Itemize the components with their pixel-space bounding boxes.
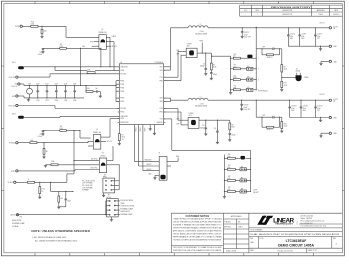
terminal VOUT2: [319, 94, 338, 103]
svg-text:R6: R6: [232, 124, 234, 126]
svg-text:DUAL 3A MONOLITHIC SYNCHRONOUS: DUAL 3A MONOLITHIC SYNCHRONOUS STEP-DOWN…: [250, 233, 340, 236]
resistor R2 453k: [87, 69, 95, 73]
svg-text:COUT3: COUT3: [244, 32, 249, 34]
wire PGND stubs: [134, 125, 154, 133]
ground: [149, 129, 152, 131]
svg-text:VOUT1: VOUT1: [319, 23, 324, 25]
svg-text:SW2: SW2: [160, 101, 163, 103]
resistor R3 4.7M: [60, 44, 67, 49]
transistor Q1 TMB2A: [98, 29, 106, 49]
jumper JP2 FREQ: [103, 164, 119, 193]
wire: [281, 72, 283, 81]
wire VOUT1 bus: [208, 27, 329, 29]
svg-text:CIN6: CIN6: [73, 100, 76, 102]
svg-text:RUN1: RUN1: [200, 41, 204, 43]
capacitor COUT9 0.1uF: [240, 100, 250, 111]
wire: [41, 26, 43, 29]
svg-text:REV: REV: [256, 10, 259, 12]
svg-text:BURST MODE: BURST MODE: [12, 220, 21, 222]
wire TRACK/SS1: [24, 66, 120, 68]
svg-text:47uF: 47uF: [301, 36, 304, 38]
svg-text:VOUT2: VOUT2: [319, 94, 324, 96]
svg-text:SHEET 1 OF 1: SHEET 1 OF 1: [308, 250, 317, 252]
wire: [107, 146, 113, 161]
svg-text:40.2k 1%: 40.2k 1%: [267, 57, 274, 59]
svg-text:22uF: 22uF: [45, 83, 48, 85]
svg-text:ITH1: ITH1: [160, 77, 163, 79]
svg-text:HYS: HYS: [90, 41, 93, 43]
transistor Q2 TMB2A-160: [93, 129, 101, 149]
resistor R24 40.2k: [281, 122, 288, 129]
ground: [280, 90, 283, 92]
svg-text:TRK/SS2: TRK/SS2: [9, 143, 16, 145]
svg-text:R21: R21: [228, 165, 231, 167]
svg-text:EXT SYNC: EXT SYNC: [91, 168, 98, 170]
svg-text:REVISION HISTORY: REVISION HISTORY: [271, 7, 312, 9]
svg-text:PVIN1: PVIN1: [120, 91, 124, 93]
resistor R12 1M: [43, 148, 48, 154]
ground: [57, 207, 60, 209]
ground: [40, 36, 43, 38]
wire: [256, 27, 257, 49]
resistor R9 40.2k: [281, 65, 288, 72]
svg-text:22uF: 22uF: [64, 83, 67, 85]
terminal GND: [329, 60, 337, 63]
svg-text:JP8: JP8: [241, 189, 244, 191]
svg-text:471n: 471n: [189, 115, 192, 117]
svg-text:COMP2: COMP2: [189, 113, 194, 115]
svg-text:R13: R13: [234, 86, 237, 88]
svg-text:CONTINUOUS MODE: CONTINUOUS MODE: [120, 206, 134, 208]
svg-text:L1: L1: [200, 24, 202, 26]
svg-text:2.2uF OPT: 2.2uF OPT: [244, 37, 251, 39]
svg-text:0805: 0805: [290, 38, 293, 40]
svg-text:100k: 100k: [228, 167, 231, 169]
wire: [19, 214, 106, 216]
svg-text:TECHNOLOGY: TECHNOLOGY: [275, 224, 293, 226]
svg-text:60.4k: 60.4k: [232, 127, 236, 129]
svg-text:0.1uF: 0.1uF: [317, 36, 321, 38]
svg-text:BURST MODE,: BURST MODE,: [120, 211, 130, 213]
svg-text:OPT: OPT: [317, 38, 320, 40]
svg-text:0.01uF: 0.01uF: [38, 136, 42, 138]
svg-text:PRODUCTION: PRODUCTION: [283, 14, 292, 16]
svg-text:L2: L2: [200, 96, 202, 98]
svg-text:47uF: 47uF: [290, 36, 293, 38]
wire: [106, 46, 117, 48]
svg-text:R8: R8: [60, 126, 62, 128]
wire: [164, 112, 188, 125]
wire: [92, 45, 99, 47]
svg-text:COUT6: COUT6: [301, 34, 306, 36]
svg-text:2.2uF OPT: 2.2uF OPT: [244, 109, 251, 111]
svg-text:40.2k: 40.2k: [284, 126, 288, 128]
svg-text:0805: 0805: [301, 38, 304, 40]
svg-text:CMP: CMP: [176, 123, 179, 125]
wire: [164, 54, 187, 81]
transistor Q3 2N7002: [99, 153, 106, 173]
wire: [197, 52, 211, 54]
resistor ladder VOUT1 select: [211, 49, 259, 94]
wire: [80, 131, 91, 139]
terminal GND: [329, 45, 337, 48]
wire: [58, 202, 60, 207]
title block outline: [170, 213, 172, 253]
svg-text:OPT: OPT: [262, 47, 265, 49]
svg-text:JP7: JP7: [241, 178, 244, 180]
svg-text:LT123: LT123: [297, 221, 299, 225]
ground: [319, 136, 322, 138]
wire: [35, 174, 75, 182]
wire: [42, 131, 44, 133]
wire: [107, 164, 120, 166]
svg-text:1. ALL RESISTORS ARE IN OHMS,: 1. ALL RESISTORS ARE IN OHMS, 0603.: [32, 236, 67, 239]
svg-text:47.5k: 47.5k: [41, 189, 45, 191]
svg-text:CUSTOMER NOTICE: CUSTOMER NOTICE: [186, 215, 210, 218]
wire: [134, 125, 159, 162]
svg-text:R11: R11: [234, 65, 237, 67]
svg-text:470pF: 470pF: [232, 135, 236, 137]
wire: [42, 49, 44, 51]
svg-text:R24: R24: [284, 123, 287, 125]
terminal PVIN1: [15, 25, 22, 28]
wire: [88, 145, 93, 147]
capacitor C14 1uF: [93, 88, 102, 98]
svg-text:CIN1: CIN1: [28, 83, 31, 85]
svg-text:15k: 15k: [233, 56, 235, 58]
wire: [43, 47, 60, 49]
svg-text:R19: R19: [284, 83, 287, 85]
diode D1 B240A: [296, 68, 310, 81]
wire: [281, 88, 283, 90]
svg-text:Q1: Q1: [101, 29, 103, 31]
svg-text:0.1uF: 0.1uF: [244, 107, 248, 109]
svg-text:R22: R22: [228, 176, 231, 178]
node ILIM1 junction: [41, 26, 42, 27]
ground: [204, 74, 207, 76]
wire vertical bus: [73, 131, 75, 174]
svg-text:PGOOD1: PGOOD1: [9, 77, 16, 79]
svg-text:PCB DES.: PCB DES.: [224, 222, 231, 224]
svg-text:CMP: CMP: [176, 50, 179, 52]
svg-text:471n: 471n: [187, 46, 190, 48]
capacitor CIN1 150uF: [27, 83, 33, 98]
svg-text:TOM G: TOM G: [318, 14, 323, 16]
wire: [66, 26, 99, 37]
svg-text:LTC3615EUF: LTC3615EUF: [286, 239, 307, 243]
resistor R18 10k: [58, 191, 63, 202]
wire: [39, 194, 41, 197]
svg-text:C10: C10: [214, 128, 217, 130]
ground: [42, 157, 45, 159]
wire: [16, 181, 28, 183]
terminal MODE: [11, 214, 25, 228]
svg-text:COUT10: COUT10: [317, 106, 323, 108]
svg-text:JP6: JP6: [241, 166, 244, 168]
wire: [22, 25, 31, 27]
wire: [95, 69, 119, 71]
wire: [106, 35, 116, 67]
op-amp COMP1 pot: [186, 43, 197, 57]
svg-text:JP6: JP6: [247, 87, 250, 89]
svg-text:Q2: Q2: [96, 129, 98, 131]
svg-text:ALL CAPACITORS ARE IN MICROFAR: ALL CAPACITORS ARE IN MICROFARADS, 0603.: [35, 239, 78, 242]
wire: [143, 125, 159, 171]
svg-text:VC EXT: VC EXT: [8, 182, 14, 184]
terminal GND: [12, 95, 18, 98]
svg-text:JP1: JP1: [108, 195, 111, 197]
svg-text:1000pF: 1000pF: [200, 66, 205, 68]
wire VIN rail: [20, 84, 116, 86]
svg-text:RUN: RUN: [176, 156, 179, 158]
svg-text:MODE/SYNC: MODE/SYNC: [120, 122, 128, 124]
svg-text:MODE1: MODE1: [147, 164, 152, 166]
resistor R19 40.2k: [281, 81, 288, 87]
svg-text:RUN2: RUN2: [120, 118, 124, 120]
svg-text:Thursday, June 03, 2010: Thursday, June 03, 2010: [277, 250, 293, 252]
op-amp U1 LTC3615EUF regulator: [118, 62, 166, 125]
wire: [139, 125, 160, 167]
svg-text:LTC3615EUF: LTC3615EUF: [155, 62, 164, 64]
svg-text:CIN4: CIN4: [55, 100, 58, 102]
resistor R4: [85, 85, 93, 92]
capacitor C13 0.01uF: [38, 48, 45, 56]
resistor R8 4.7M: [60, 126, 67, 131]
svg-text:SELECT: SELECT: [253, 192, 259, 194]
capacitors COUT5 COUT6 C2: [287, 27, 329, 50]
svg-text:TOM G: TOM G: [238, 227, 243, 229]
wire ITH2: [164, 109, 188, 121]
wire: [281, 129, 283, 131]
svg-text:CIN2: CIN2: [36, 100, 39, 102]
svg-text:324k: 324k: [51, 161, 54, 163]
ground: [38, 197, 41, 199]
svg-text:0.01uF: 0.01uF: [38, 54, 42, 56]
svg-text:PVIN1: PVIN1: [120, 87, 124, 89]
svg-text:100k: 100k: [44, 31, 47, 33]
svg-text:NOTE: UNLESS OTHERWISE SPECIFI: NOTE: UNLESS OTHERWISE SPECIFIED: [31, 229, 90, 233]
ground: [153, 178, 156, 180]
capacitor/resistor feedforward OPT: [256, 47, 282, 59]
svg-text:1000pF: 1000pF: [200, 127, 205, 129]
LED LED1: [12, 62, 24, 69]
svg-text:0805: 0805: [303, 110, 306, 112]
node junction: [79, 130, 80, 131]
wire: [43, 130, 60, 132]
wire: [106, 42, 114, 71]
svg-text:PULSE SKIP MODE: PULSE SKIP MODE: [120, 200, 133, 202]
svg-text:RT = 59.0K (1/2 FN): RT = 59.0K (1/2 FN): [82, 180, 95, 182]
svg-text:40.2k: 40.2k: [284, 85, 288, 87]
svg-text:56pF: 56pF: [67, 201, 70, 203]
resistor R16 0.003 sense: [31, 22, 38, 28]
svg-text:R23: R23: [228, 187, 231, 189]
svg-text:100pF: 100pF: [213, 74, 217, 76]
terminal TRK/SS2: [9, 142, 18, 145]
wire: [256, 100, 257, 118]
svg-text:C12: C12: [202, 125, 205, 127]
svg-text:C6: C6: [203, 63, 205, 65]
svg-text:COUT5: COUT5: [290, 34, 295, 36]
ground: [204, 134, 207, 136]
ground: [216, 142, 219, 144]
svg-text:OPT: OPT: [262, 115, 265, 117]
wire VFB2: [164, 119, 251, 192]
svg-text:LOOP SELECT: LOOP SELECT: [259, 90, 269, 92]
svg-text:CIN5: CIN5: [64, 100, 67, 102]
svg-text:0805: 0805: [291, 110, 294, 112]
wire: [41, 34, 43, 37]
svg-text:ITH2: ITH2: [160, 108, 163, 110]
svg-text:22uF: 22uF: [55, 83, 58, 85]
wire: [80, 48, 81, 86]
capacitors CIN2-CIN7 22uF: [36, 83, 76, 102]
svg-text:REV: REV: [333, 238, 336, 240]
ground: [240, 109, 243, 111]
svg-text:59.0k: 59.0k: [122, 137, 126, 139]
wire: [38, 25, 66, 27]
svg-text:LED2: LED2: [12, 113, 16, 115]
wire ITH1: [164, 50, 187, 77]
wire SW1: [164, 28, 188, 70]
node junction: [100, 48, 101, 49]
capacitor/resistor feedforward OPT ch2: [256, 115, 282, 131]
svg-text:SW1: SW1: [160, 66, 163, 68]
svg-text:22uF: 22uF: [73, 83, 76, 85]
svg-text:APPROVALS: APPROVALS: [231, 215, 243, 218]
svg-text:40.2k: 40.2k: [284, 69, 288, 71]
svg-text:SW1: SW1: [160, 70, 163, 72]
wire: [50, 182, 73, 192]
svg-text:4.7uH: 4.7uH: [200, 103, 204, 105]
svg-text:40.2k 1%: 40.2k 1%: [267, 129, 274, 131]
svg-text:RUN1: RUN1: [120, 70, 124, 72]
node junction: [281, 77, 282, 78]
svg-text:SW2: SW2: [160, 98, 163, 100]
svg-text:453k: 453k: [87, 69, 90, 71]
resistor RT 59k: [118, 125, 125, 141]
wire: [199, 119, 230, 121]
ground: [44, 165, 47, 167]
wire: [66, 130, 80, 131]
svg-text:4.7uH: 4.7uH: [200, 31, 204, 33]
terminal SYNC: [11, 170, 18, 173]
wire: [321, 61, 329, 63]
svg-text:100k: 100k: [228, 189, 231, 191]
inductor L2 4.7uH: [188, 96, 208, 107]
svg-text:47uF: 47uF: [291, 108, 294, 110]
wire: [18, 142, 30, 144]
resistor R7 100k: [30, 140, 37, 144]
svg-text:2N7002: 2N7002: [100, 155, 105, 157]
svg-text:COMP1: COMP1: [187, 43, 192, 45]
svg-text:JP2: JP2: [104, 174, 107, 176]
svg-text:06-03-10: 06-03-10: [333, 14, 339, 16]
net label LOOP SELECT: [253, 190, 259, 194]
resistor R14 1k: [27, 179, 34, 183]
wire: [43, 154, 45, 156]
node junction: [39, 182, 40, 183]
svg-text:100k: 100k: [228, 156, 231, 158]
svg-text:IC NO.: IC NO.: [260, 238, 265, 240]
capacitor C12 1000pF: [200, 120, 207, 134]
net label LOOP SELECT: [259, 90, 269, 92]
svg-text:1uF: 1uF: [95, 88, 98, 90]
terminal PGOOD2: [9, 104, 18, 107]
svg-text:Phone: (408)432-1900 www.li: Phone: (408)432-1900 www.linear.com: [301, 221, 326, 223]
svg-text:R10: R10: [234, 54, 237, 56]
ground: [118, 141, 121, 145]
svg-text:U1: U1: [120, 62, 122, 64]
wire INT SYNC: [73, 159, 99, 162]
svg-text:SIZE: SIZE: [250, 238, 253, 240]
svg-text:PVIN2: PVIN2: [120, 98, 124, 100]
jumper JP1 MODE: [105, 195, 120, 217]
svg-text:CIN3: CIN3: [45, 100, 48, 102]
svg-text:D1: D1: [296, 68, 298, 70]
svg-text:2.5V-5.5V: 2.5V-5.5V: [11, 86, 17, 88]
wire: [18, 106, 119, 109]
ground: [27, 98, 30, 101]
Linear Technology logo: [257, 216, 266, 225]
terminal VIN: [11, 83, 20, 88]
svg-text:C15: C15: [39, 134, 42, 136]
wire: [43, 143, 45, 149]
svg-text:U2: U2: [158, 152, 160, 154]
wire RUN1 stub: [200, 41, 204, 54]
svg-text:INT VCC: INT VCC: [112, 46, 117, 48]
svg-text:COUT9: COUT9: [244, 105, 249, 107]
svg-text:CMP: CMP: [176, 54, 179, 56]
capacitors COUT11 COUT12 C4: [288, 100, 329, 122]
svg-text:80.6k: 80.6k: [233, 77, 237, 79]
jumper ladder VOUT2 select: [223, 154, 251, 198]
svg-text:INT SYNC: INT SYNC: [91, 159, 97, 161]
svg-text:Q3: Q3: [102, 153, 104, 155]
svg-text:PHMODE: PHMODE: [157, 122, 163, 124]
wire: [37, 141, 94, 142]
svg-text:PVIN1: PVIN1: [120, 80, 124, 82]
svg-text:R16: R16: [31, 22, 34, 24]
wire: [281, 117, 283, 121]
svg-text:INT VCC: INT VCC: [107, 141, 112, 143]
svg-text:100k: 100k: [87, 88, 90, 90]
node junction: [80, 48, 81, 49]
ground: [319, 64, 322, 66]
resistor R15 47.5k: [39, 187, 45, 194]
svg-text:C13: C13: [39, 52, 42, 54]
wire: [18, 74, 119, 77]
svg-text:PVIN2: PVIN2: [120, 112, 124, 114]
svg-text:JP5: JP5: [247, 77, 250, 79]
svg-text:40.2k: 40.2k: [233, 66, 237, 68]
inductor L1 4.7uH: [188, 24, 208, 35]
svg-text:R9: R9: [284, 66, 286, 68]
wire RUN1: [54, 66, 87, 70]
svg-text:PGOOD1: PGOOD1: [120, 73, 126, 75]
svg-text:DESCRIPTION: DESCRIPTION: [282, 10, 292, 12]
ground: [41, 134, 44, 136]
svg-text:VFB2: VFB2: [159, 112, 163, 114]
wire: [167, 165, 171, 167]
svg-text:LOOP: LOOP: [253, 190, 257, 192]
wire: [321, 133, 329, 135]
ground: [228, 140, 231, 142]
capacitor C6 1000pF: [200, 53, 207, 74]
svg-text:PGOOD2: PGOOD2: [120, 108, 126, 110]
wire: [66, 46, 101, 48]
resistor R17 100k: [41, 29, 47, 34]
